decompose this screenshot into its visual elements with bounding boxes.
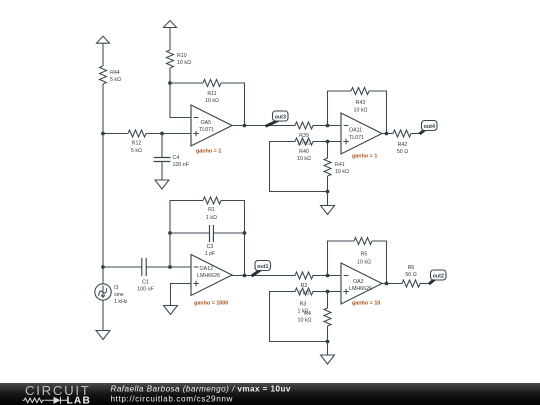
resistor R10 — [167, 50, 192, 68]
svg-text:http://circuitlab.com/cs29nnw: http://circuitlab.com/cs29nnw — [111, 395, 234, 404]
node OA3-noninv — [326, 290, 330, 294]
ground — [155, 180, 169, 189]
wire — [327, 342, 329, 356]
svg-text:LMH6626: LMH6626 — [197, 273, 220, 279]
svg-text:1 pF: 1 pF — [205, 251, 216, 257]
svg-text:100 nF: 100 nF — [137, 287, 154, 293]
wire — [411, 133, 420, 135]
resistor R40 — [295, 138, 313, 162]
resistor R44 — [100, 66, 122, 84]
svg-text:5 kΩ: 5 kΩ — [131, 148, 142, 154]
wire — [103, 133, 128, 135]
resistor R2 — [295, 272, 313, 297]
wire — [369, 91, 387, 134]
svg-text:10 kΩ: 10 kΩ — [335, 169, 349, 175]
power supply arrow V1 — [97, 36, 110, 43]
svg-text:100 nF: 100 nF — [173, 162, 190, 168]
wire — [169, 68, 171, 83]
node C3-right — [243, 231, 247, 235]
wire — [146, 133, 191, 135]
resistor R6 — [402, 265, 420, 287]
svg-text:OA12: OA12 — [200, 266, 214, 272]
svg-text:10 kΩ: 10 kΩ — [297, 156, 311, 162]
svg-text:R41: R41 — [335, 162, 345, 168]
svg-text:R43: R43 — [356, 100, 366, 106]
wire — [103, 266, 142, 268]
svg-text:out4: out4 — [424, 124, 435, 130]
svg-text:ganho = 1000: ganho = 1000 — [194, 301, 228, 307]
svg-text:R2: R2 — [301, 283, 308, 289]
node OA5-inv — [168, 81, 172, 85]
resistor R3 — [295, 288, 313, 315]
wire — [161, 162, 163, 181]
svg-text:TL071: TL071 — [349, 135, 364, 141]
svg-text:R40: R40 — [299, 149, 309, 155]
node OA5-out — [243, 124, 247, 128]
svg-text:OA3: OA3 — [353, 279, 364, 285]
FOOTER — [0, 383, 540, 405]
ground — [164, 306, 178, 315]
svg-text:R6: R6 — [408, 265, 415, 271]
wire — [171, 284, 192, 306]
node OA11-inv — [326, 124, 330, 128]
svg-text:10 kΩ: 10 kΩ — [357, 260, 371, 266]
wire — [214, 232, 245, 234]
svg-text:R3: R3 — [300, 302, 307, 308]
wire — [382, 283, 402, 285]
svg-text:out3: out3 — [275, 114, 286, 120]
node OA3-out — [385, 282, 389, 286]
svg-text:LMH6626: LMH6626 — [349, 286, 372, 292]
wire — [420, 283, 429, 285]
svg-text:sine: sine — [114, 292, 124, 298]
flag out4 — [420, 121, 438, 135]
wire — [170, 82, 203, 84]
resistor R5 — [354, 238, 372, 266]
wire — [327, 192, 329, 206]
resistor R39 — [295, 122, 313, 147]
svg-text:I3: I3 — [114, 285, 118, 291]
svg-text:out1: out1 — [257, 264, 268, 270]
svg-text:TL071: TL071 — [199, 127, 214, 133]
wire — [327, 292, 329, 309]
wire — [170, 232, 210, 234]
wire — [328, 91, 352, 126]
node C4-tap — [160, 132, 164, 136]
svg-text:R5: R5 — [361, 252, 368, 258]
svg-text:50 Ω: 50 Ω — [405, 272, 416, 278]
svg-text:C3: C3 — [207, 244, 214, 250]
svg-text:C4: C4 — [173, 155, 180, 161]
wire — [372, 241, 387, 284]
node OA12-out — [243, 274, 247, 278]
svg-text:R39: R39 — [299, 133, 309, 139]
svg-text:R44: R44 — [110, 70, 120, 76]
ground — [96, 331, 110, 340]
wire — [232, 274, 295, 277]
resistor R42 — [393, 130, 411, 155]
wire — [313, 141, 341, 143]
wire — [102, 300, 104, 330]
resistor R4 — [298, 308, 331, 326]
op-amp OA3 — [341, 263, 382, 307]
svg-text:R42: R42 — [398, 142, 408, 148]
wire — [161, 134, 163, 158]
wire — [170, 201, 203, 268]
wire — [146, 266, 191, 268]
wire — [313, 125, 341, 127]
svg-text:C1: C1 — [142, 280, 149, 286]
ground — [321, 206, 335, 215]
node OA11-noninv — [326, 140, 330, 144]
wire — [170, 83, 191, 118]
wire — [327, 142, 329, 159]
svg-text:1 kΩ: 1 kΩ — [206, 215, 217, 221]
node OA3-inv — [326, 274, 330, 278]
wire — [221, 83, 245, 126]
wire — [270, 142, 328, 192]
wire — [232, 125, 295, 127]
svg-text:ganho = 10: ganho = 10 — [352, 301, 380, 307]
svg-text:LAB: LAB — [67, 396, 92, 405]
capacitor C1 — [137, 258, 154, 293]
wire — [328, 241, 355, 276]
svg-text:OA5: OA5 — [201, 120, 212, 126]
svg-text:R12: R12 — [132, 141, 142, 147]
wire — [102, 43, 104, 66]
node OA12-inv — [168, 265, 172, 269]
node R41-gnd — [326, 190, 330, 194]
svg-text:10 kΩ: 10 kΩ — [205, 98, 219, 104]
capacitor C3 — [205, 225, 216, 257]
svg-text:R10: R10 — [177, 53, 187, 59]
wire — [169, 28, 171, 51]
wire — [102, 134, 104, 268]
wire — [313, 275, 341, 277]
svg-text:Rafaella Barbosa (barmengo) /: Rafaella Barbosa (barmengo) / vmax = 10u… — [111, 385, 291, 394]
svg-text:10 kΩ: 10 kΩ — [298, 318, 312, 324]
flag out3 — [266, 111, 289, 126]
wire — [327, 176, 329, 192]
wire — [382, 133, 393, 135]
svg-text:R4: R4 — [304, 311, 311, 317]
svg-text:10 kΩ: 10 kΩ — [354, 108, 368, 114]
flag out2 — [429, 270, 446, 284]
wire — [162, 133, 191, 135]
wire — [221, 201, 245, 276]
ground — [321, 355, 335, 364]
svg-text:R11: R11 — [207, 91, 216, 97]
svg-text:1 kHz: 1 kHz — [114, 299, 128, 305]
resistor R12 — [128, 130, 146, 154]
svg-text:10 kΩ: 10 kΩ — [177, 60, 191, 66]
svg-text:out2: out2 — [433, 273, 444, 279]
resistor R11 — [203, 80, 221, 105]
node input-bottom — [101, 265, 105, 269]
resistor R1 — [203, 197, 221, 221]
svg-text:50 Ω: 50 Ω — [397, 149, 408, 155]
resistor R43 — [351, 88, 369, 114]
current source I3 — [95, 267, 128, 305]
svg-text:ganho = 1: ganho = 1 — [352, 154, 377, 160]
svg-text:R1: R1 — [208, 207, 215, 213]
node OA11-out — [385, 132, 389, 136]
svg-text:OA11: OA11 — [349, 128, 362, 134]
wire — [313, 291, 341, 293]
wire — [102, 84, 104, 134]
wire — [270, 292, 328, 342]
op-amp OA5 — [191, 105, 232, 155]
node R4-gnd — [326, 340, 330, 344]
power supply arrow V2 — [164, 21, 177, 28]
node C3-left — [168, 231, 172, 235]
svg-text:5 kΩ: 5 kΩ — [110, 77, 121, 83]
resistor R41 — [324, 158, 349, 176]
svg-text:ganho = 1: ganho = 1 — [196, 149, 221, 155]
node input-top — [101, 132, 105, 136]
capacitor C4 — [154, 155, 190, 168]
wire — [327, 326, 329, 342]
flag out1 — [252, 261, 271, 277]
op-amp OA12 — [191, 255, 232, 307]
op-amp OA11 — [341, 113, 382, 160]
